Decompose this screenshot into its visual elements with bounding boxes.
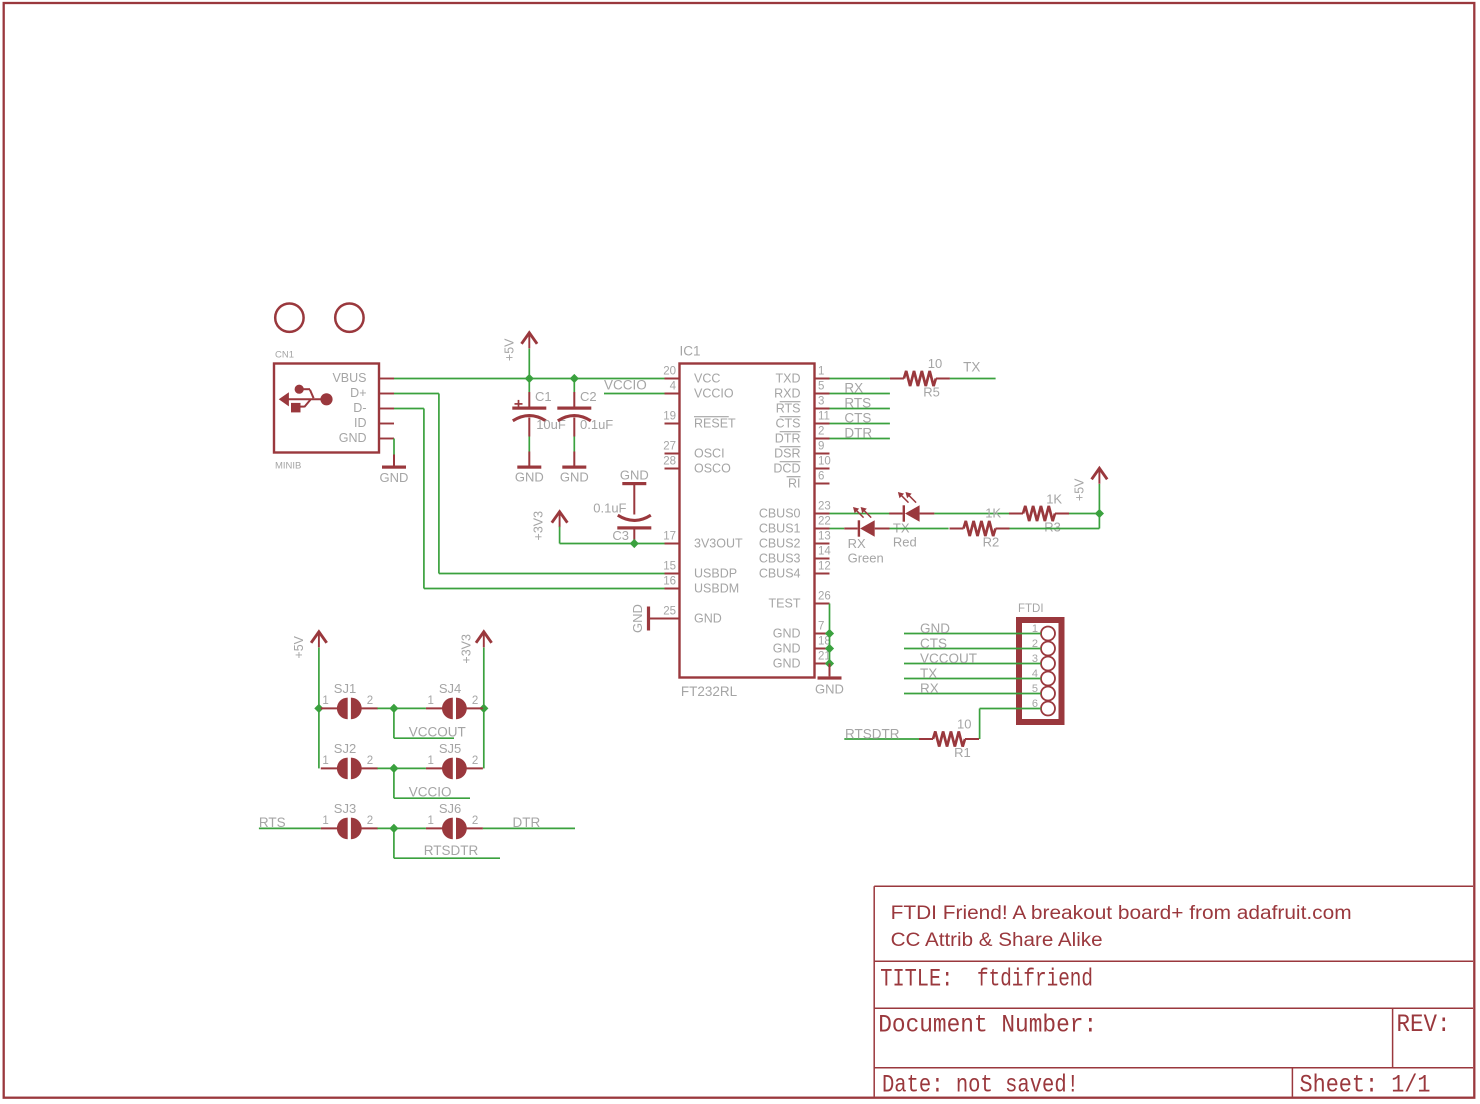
svg-text:CBUS0: CBUS0 [759,507,801,521]
svg-text:IC1: IC1 [680,344,701,359]
mounting hole pad top-right [335,304,363,332]
svg-text:D+: D+ [350,386,366,400]
solder jumper SJ5 [442,758,453,780]
IC1 pin 1 TXD stub [815,378,830,380]
resistor R3 1K [1009,513,1023,515]
junction at C3 on 3V3OUT net [630,539,639,548]
svg-text:TX: TX [963,360,980,375]
CN1 pin VBUS stub [379,378,394,380]
IC1 pin 26 TEST stub [815,603,830,605]
ground symbol below C2 [573,452,575,466]
wire SJ1 pin2 to junction to SJ4 pin1 [377,707,426,709]
IC1 pin 6 RI stub [815,483,830,485]
title block divider under TITLE row [874,1007,1473,1009]
svg-text:GND: GND [773,642,801,656]
svg-text:SJ2: SJ2 [334,741,356,756]
svg-text:1: 1 [427,695,433,707]
svg-text:Document Number:: Document Number: [878,1011,1097,1040]
svg-text:CC Attrib & Share Alike: CC Attrib & Share Alike [891,930,1103,951]
wire CTS net to FTDI pin 2 [904,648,1041,650]
IC1 pin 22 CBUS1 stub [815,528,830,530]
IC1 pin 11 CTS stub [815,423,830,425]
wire VCCOUT net to FTDI pin 3 [904,663,1041,665]
IC1 pin 7 GND stub [815,633,830,635]
svg-text:GND: GND [560,470,589,485]
junction at C1 on VBUS rail [525,374,534,383]
svg-text:CBUS3: CBUS3 [759,552,801,566]
svg-text:3: 3 [818,395,824,407]
svg-text:+3V3: +3V3 [459,634,473,664]
svg-text:C3: C3 [612,528,629,543]
svg-text:10: 10 [818,455,831,467]
IC1 pin 3 RTS stub [815,408,830,410]
svg-text:VCCOUT: VCCOUT [409,725,466,740]
svg-text:RX: RX [920,681,939,696]
svg-text:R3: R3 [1044,519,1061,534]
wire SJ2 pin2 to junction to SJ5 pin1 [377,767,426,769]
svg-text:RTS: RTS [844,396,871,411]
svg-text:1: 1 [427,755,433,767]
wire TEST pin 26 down to GND chain [829,604,831,664]
svg-text:1: 1 [322,755,328,767]
svg-text:CTS: CTS [844,411,871,426]
svg-text:GND: GND [620,468,649,483]
wire TX net from R5 [950,378,996,380]
junction at C2 on VBUS rail [570,374,579,383]
svg-text:GND: GND [380,470,409,485]
svg-text:CN1: CN1 [275,350,294,361]
IC1 pin 17 3V3OUT stub [665,543,680,545]
wire CBUS1 from pin 22 to LED RX [830,528,845,530]
svg-text:RTSDTR: RTSDTR [424,843,479,858]
svg-text:DCD: DCD [773,462,800,476]
svg-text:7: 7 [818,620,824,632]
svg-text:DTR: DTR [844,426,872,441]
title block divider under description [874,960,1473,962]
wire +5V down to SJ1 [318,648,320,709]
svg-text:11: 11 [818,410,830,422]
IC1 pin 16 USBDM stub [665,588,680,590]
svg-text:3V3OUT: 3V3OUT [694,537,743,551]
wire RTS net to SJ3 pin1 [259,827,321,829]
USB trident icon [280,385,333,413]
svg-text:CTS: CTS [920,636,947,651]
IC1 pin 4 VCCIO stub [665,393,680,395]
svg-text:2: 2 [472,755,478,767]
svg-text:GND: GND [773,657,801,671]
svg-text:TX: TX [920,666,937,681]
FTDI pin 1 circle [1041,627,1055,641]
junction at SJ4 pin 2 [479,704,488,713]
svg-text:R2: R2 [983,535,1000,550]
svg-text:FT232RL: FT232RL [681,684,738,699]
wire riser from CBUS1 line up to junction [1098,514,1100,529]
IC1 pin 20 VCC stub [665,378,680,380]
svg-text:26: 26 [818,590,831,602]
solder jumper SJ6 [442,818,453,840]
wire VCCIO net to IC pin 4 [604,393,665,395]
svg-text:DTR: DTR [513,815,541,830]
IC1 pin 18 GND stub [815,648,830,650]
svg-text:C2: C2 [580,389,597,404]
LED TX red [903,505,905,521]
IC1 pin 15 USBDP stub [665,573,680,575]
svg-text:OSCI: OSCI [694,447,725,461]
svg-text:R1: R1 [954,745,971,760]
svg-text:VCCIO: VCCIO [604,378,647,393]
svg-text:DTR: DTR [775,432,801,446]
svg-text:2: 2 [472,695,478,707]
svg-text:ftdifriend: ftdifriend [977,965,1093,994]
resistor R5 10 ohm [890,378,904,380]
svg-text:17: 17 [663,530,676,542]
ground symbol below IC GND pins [829,664,831,677]
wire +5V rail down to SJ2 [318,708,320,768]
capacitor C3 0.1uF flipped [633,485,635,515]
svg-text:CTS: CTS [776,417,801,431]
IC1 pin 14 CBUS3 stub [815,558,830,560]
svg-text:1K: 1K [985,506,1001,521]
op-amp like IC1 FT232RL body [680,364,815,678]
svg-text:VCCIO: VCCIO [409,785,452,800]
svg-text:RESET: RESET [694,417,736,431]
ground symbol at IC pin 25 rotated [647,607,650,631]
svg-text:R5: R5 [923,385,940,400]
wire C1 top lead [528,379,530,393]
mounting hole pad top-left [275,304,303,332]
solder jumper SJ3 [337,818,348,840]
+5V supply symbol right [1092,468,1108,479]
svg-text:SJ5: SJ5 [439,741,461,756]
USB mini-B connector CN1 body [274,364,379,453]
wire RTSDTR to R1 [844,738,919,740]
svg-text:19: 19 [663,410,676,422]
svg-text:ID: ID [354,416,367,430]
junction at SJ1 pin 1 [314,704,323,713]
svg-text:VCC: VCC [694,372,720,386]
resistor R1 10 ohm [919,738,933,740]
wire TX net to FTDI pin 4 [904,678,1041,680]
svg-text:23: 23 [818,500,831,512]
svg-text:2: 2 [367,755,373,767]
wire CBUS0 from pin 23 to LED TX [830,513,890,515]
svg-text:MINIB: MINIB [275,461,301,472]
svg-text:RXD: RXD [774,387,800,401]
svg-text:1: 1 [818,365,824,377]
title block outline [873,886,875,1096]
svg-text:VBUS: VBUS [332,371,366,385]
junction RTSDTR at SJ3/SJ6 [389,824,398,833]
wire R3 to +5V junction [1069,513,1099,515]
svg-text:CBUS2: CBUS2 [759,537,801,551]
IC1 pin 2 DTR stub [815,438,830,440]
FTDI pin 6 circle [1041,702,1055,716]
IC1 pin 5 RXD stub [815,393,830,395]
svg-text:CBUS1: CBUS1 [759,522,801,536]
svg-text:1: 1 [322,695,328,707]
ground symbol below C1 [528,452,530,466]
wire C2 top lead [573,379,575,393]
IC1 pin 27 OSCI stub [665,453,680,455]
svg-text:FTDI: FTDI [1018,603,1044,615]
wire DTR net from IC [830,438,890,440]
IC1 pin 25 GND stub [665,618,680,620]
svg-text:+5V: +5V [1072,478,1086,501]
title block divider under Document row [874,1067,1473,1069]
svg-text:REV:: REV: [1397,1010,1451,1039]
junction at pin 18 [825,644,834,653]
svg-text:SJ6: SJ6 [439,801,461,816]
wire LED RX to R2 [890,528,949,530]
junction VCCIO at SJ2/SJ5 [389,764,398,773]
svg-text:10: 10 [928,356,942,371]
wire +3V3 down to SJ4 pin2 [483,648,485,709]
resistor R2 1K [950,528,964,530]
svg-text:GND: GND [694,612,722,626]
wire RX net from IC [830,393,890,395]
wire C2 bottom lead to GND [573,437,575,452]
IC1 pin 9 DSR stub [815,453,830,455]
svg-text:GND: GND [630,604,645,633]
svg-text:RX: RX [848,536,866,551]
svg-text:VCCIO: VCCIO [694,387,734,401]
+3V3 supply symbol near C3 [552,512,568,523]
svg-text:GND: GND [515,470,544,485]
svg-text:2: 2 [472,815,478,827]
junction at pin 21 [825,659,834,668]
svg-text:2: 2 [818,425,824,437]
svg-text:15: 15 [663,560,676,572]
wire VBUS net from CN1 to +5V rail to IC pin20 [394,378,665,380]
wire D- net from CN1 to USBDM [394,408,424,410]
svg-text:VCCOUT: VCCOUT [920,651,977,666]
+5V supply symbol above C1 [522,333,538,344]
svg-text:GND: GND [339,431,367,445]
wire RTSDTR net down and right [393,828,395,858]
svg-text:5: 5 [818,380,824,392]
svg-text:DSR: DSR [774,447,800,461]
svg-text:+5V: +5V [292,635,306,658]
svg-text:9: 9 [818,440,824,452]
FTDI pin 4 circle [1041,672,1055,686]
title block REV cell divider [1392,1008,1394,1068]
svg-text:20: 20 [663,365,676,377]
svg-text:28: 28 [663,455,676,467]
wire +3V3 rail down to SJ5 pin2 [483,708,485,768]
svg-text:0.1uF: 0.1uF [593,501,626,516]
svg-text:6: 6 [818,470,824,482]
FTDI pin 3 circle [1041,657,1055,671]
CN1 pin ID stub [379,423,394,425]
wire C1 bottom lead to GND [528,437,530,452]
wire CTS net from IC [830,423,890,425]
CN1 pin D- stub [379,408,394,410]
svg-text:16: 16 [663,575,676,587]
svg-text:25: 25 [663,605,676,617]
IC1 pin 13 CBUS2 stub [815,543,830,545]
svg-text:2: 2 [367,815,373,827]
svg-text:RI: RI [788,477,801,491]
connector FTDI 6-pin header body [1019,620,1062,722]
svg-text:SJ4: SJ4 [439,681,461,696]
svg-text:Date: not saved!: Date: not saved! [882,1071,1079,1100]
svg-text:TEST: TEST [769,597,801,611]
svg-text:1K: 1K [1046,492,1062,507]
svg-text:27: 27 [663,440,676,452]
svg-text:2: 2 [367,695,373,707]
wire +5V stem to junction [1098,484,1100,514]
wire RTS net from IC [830,408,890,410]
solder jumper SJ4 [442,698,453,720]
svg-text:USBDP: USBDP [694,567,737,581]
solder jumper SJ2 [337,758,348,780]
FTDI pin 5 circle [1041,687,1055,701]
svg-text:12: 12 [818,560,831,572]
CN1 pin GND stub [379,438,394,440]
svg-text:RX: RX [844,381,863,396]
wire SJ6 pin2 to DTR net [483,827,575,829]
IC1 pin 28 OSCO stub [665,468,680,470]
svg-text:22: 22 [818,515,831,527]
solder jumper SJ1 [337,698,348,720]
wire VCCOUT net down and right [393,708,395,738]
svg-text:Sheet: 1/1: Sheet: 1/1 [1300,1071,1431,1100]
IC1 pin 10 DCD stub [815,468,830,470]
svg-text:SJ1: SJ1 [334,681,356,696]
svg-text:FTDI Friend! A breakout board+: FTDI Friend! A breakout board+ from adaf… [891,903,1352,924]
FTDI pin 2 circle [1041,642,1055,656]
svg-text:0.1uF: 0.1uF [580,417,613,432]
wire SJ3 pin2 to junction to SJ6 pin1 [377,827,426,829]
ground symbol below CN1 [393,455,395,466]
svg-text:D-: D- [353,401,366,415]
svg-text:10: 10 [957,717,971,732]
svg-text:GND: GND [920,621,950,636]
svg-text:TXD: TXD [776,372,801,386]
wire D+ net from CN1 to USBDP [394,393,439,395]
IC1 pin 12 CBUS4 stub [815,573,830,575]
svg-text:CBUS4: CBUS4 [759,567,801,581]
wire +3V3 to 3V3OUT pin 17 [559,527,561,544]
svg-text:4: 4 [670,380,677,392]
IC1 pin 23 CBUS0 stub [815,513,830,515]
svg-text:C1: C1 [535,389,552,404]
svg-text:RTSDTR: RTSDTR [845,727,900,742]
svg-text:Red: Red [893,534,917,549]
svg-text:TITLE:: TITLE: [880,965,953,994]
svg-text:+5V: +5V [502,338,516,361]
svg-text:1: 1 [427,815,433,827]
junction VCCOUT at SJ1/SJ4 [389,704,398,713]
svg-text:RTS: RTS [776,402,801,416]
LED RX green [858,520,860,536]
+3V3 supply symbol at SJ4 [476,632,492,643]
junction at pin 7 [825,629,834,638]
svg-text:Green: Green [848,550,884,565]
svg-text:GND: GND [815,682,844,697]
svg-text:13: 13 [818,530,831,542]
wire RTSDTR net to FTDI pin 6 [980,708,1041,710]
+5V supply symbol at SJ1 [311,632,327,643]
svg-text:1: 1 [322,815,328,827]
wire CN1 GND drop [393,439,395,455]
wire TXD from pin 1 to R5 [830,378,890,380]
wire R2 to +5V riser [1010,528,1100,530]
capacitor C2 0.1uF [573,392,575,407]
CN1 pin D+ stub [379,393,394,395]
IC1 pin 19 RESET stub [665,423,680,425]
wire VCCIO net down and right [393,768,395,798]
svg-text:SJ3: SJ3 [334,801,356,816]
svg-text:OSCO: OSCO [694,462,731,476]
wire +5V stem to VBUS rail [528,349,530,379]
svg-text:GND: GND [773,627,801,641]
wire RX net to FTDI pin 5 [904,693,1041,695]
junction on +5V at R3 [1095,509,1104,518]
title block Sheet cell divider [1291,1068,1293,1097]
svg-text:USBDM: USBDM [694,582,739,596]
wire GND net to FTDI pin 1 [904,633,1041,635]
capacitor C1 polarized 10uF [528,392,530,407]
wire LED TX to R3 [934,513,1009,515]
svg-text:14: 14 [818,545,831,557]
svg-text:+3V3: +3V3 [532,511,546,541]
IC1 pin 21 GND stub [815,663,830,665]
